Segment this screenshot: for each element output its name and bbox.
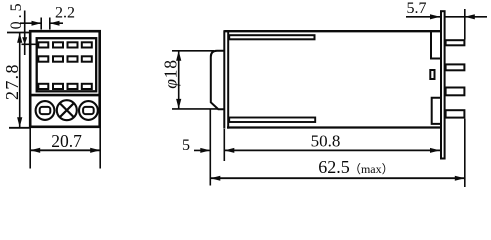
dim 20.7 extension line left [29,128,31,169]
dim 5.7 line left with arrow [406,16,465,18]
svg-text:20.7: 20.7 [51,131,82,151]
dim 27.8 extension line bottom [9,127,30,129]
dim 50.8 dimension line [224,149,440,151]
display segment row2 col2 [53,56,63,61]
bezel front inner line [227,30,229,128]
dim 27.8 bottom arrow [17,117,22,127]
terminal screw circle middle [57,100,77,120]
display segment row3 col4 [82,84,92,89]
dim 0.5 arrow (down, tip on lower extension) [22,37,27,44]
dim 50.8 / 5 shared left arrow [224,148,234,153]
side body bottom edge [227,126,441,128]
dim 27.8 extension line top [7,32,30,34]
pin 4 [446,110,465,117]
bottom inner rail [229,118,315,123]
display segment row3 col1 [38,84,48,89]
display segment row1 col3 [68,42,78,47]
dim 20.7 left arrow [30,148,40,153]
dim phi18 bottom arrow [176,99,181,109]
dim 20.7 right arrow [90,148,100,153]
dim 2.2 extension tick right [49,18,51,30]
svg-text:2.2: 2.2 [55,5,75,22]
pin tip extension line (lower) [464,119,466,187]
display segment row2 col3 [68,56,78,61]
svg-text:（max）: （max） [349,162,394,176]
display segment row3 col3 [68,84,78,89]
svg-text:0.5: 0.5 [8,0,25,29]
rear step bracket lower [432,98,442,124]
dim 27.8 top arrow [17,33,22,43]
dim 27.8 dimension line [19,33,21,127]
bezel front outer line [223,30,225,128]
svg-text:φ18: φ18 [161,59,181,89]
svg-text:5: 5 [182,137,190,154]
svg-text:5.7: 5.7 [407,0,427,17]
dim phi18 top arrow [176,51,181,61]
terminal screw circle right [79,101,98,120]
socket latch square [430,70,434,79]
dim 0.5 extension line (row top, left extension) [22,43,37,45]
dim phi18 extension top [172,50,214,52]
dim 5.7 extension line (pin tips, upper) [464,9,466,40]
svg-text:62.5: 62.5 [318,157,350,177]
screw slot left [40,107,51,114]
display segment row1 col1 [38,42,48,47]
dim 62.5 right arrow [455,176,465,181]
extension line barrel front [209,110,211,186]
display segment row1 col2 [53,42,63,47]
dim 2.2 extension tick left [40,18,42,30]
rear step bracket upper [431,32,442,59]
mounting flange [441,11,445,158]
pin 2 [446,64,465,70]
display segment row2 col1 [38,56,48,61]
front bezel rect [37,38,96,91]
pin 1 [446,40,465,45]
screw cross middle [60,104,73,117]
front panel separator line [30,94,101,97]
dim 2.2 line right with arrow [50,22,63,24]
terminal screw circle left [36,101,55,120]
top inner rail [229,35,314,39]
dim phi18 extension bottom [172,108,218,110]
dim 2.2 line left with arrow [20,22,41,24]
display segment row2 col4 [82,56,92,61]
dim phi18 dimension line [178,51,180,109]
extension line bezel face [223,129,225,161]
display segment row1 col4 [82,42,92,47]
side body top edge [224,30,441,32]
svg-text:27.8: 27.8 [2,63,22,100]
dim 62.5 left arrow [210,176,220,181]
dim 62.5 dimension line [210,177,464,179]
screw slot right [83,107,94,114]
dim 0.5 dimension line [24,11,26,56]
barrel front (phi18 cylinder) [211,51,225,109]
dim 50.8 right arrow [430,148,440,153]
dim 5 left line with arrow [194,149,210,151]
display segment row3 col2 [53,84,63,89]
front view outer case rect [30,31,100,127]
pin 3 [446,88,465,96]
dim 5.7 line right with arrow [465,16,487,18]
svg-text:50.8: 50.8 [311,132,341,151]
dim 20.7 extension line right [99,128,101,169]
dim 20.7 dimension line [30,149,100,151]
